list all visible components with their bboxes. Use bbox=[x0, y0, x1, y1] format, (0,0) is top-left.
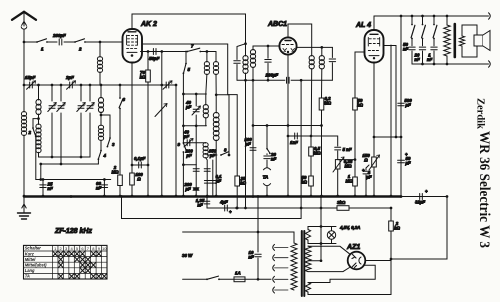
speaker bbox=[474, 31, 490, 51]
capacitor 60nF bbox=[96, 180, 108, 198]
coil antenna coupling bbox=[21, 112, 26, 198]
wire AK2 cathode bbox=[131, 63, 134, 198]
terminal bottom right bbox=[489, 61, 491, 67]
coil IF big bbox=[213, 112, 219, 197]
coil L2a bbox=[36, 85, 41, 120]
switch 8 bbox=[207, 148, 230, 157]
svg-text:pF: pF bbox=[185, 104, 192, 109]
capacitor 25nF bbox=[40, 180, 53, 198]
cap 32uF bbox=[415, 189, 428, 205]
svg-text:36 W: 36 W bbox=[182, 253, 193, 258]
resistor 50k b bbox=[301, 175, 313, 197]
svg-text:Zerdik: Zerdik bbox=[475, 98, 486, 129]
svg-text:32µF: 32µF bbox=[415, 200, 425, 205]
TA jack bbox=[263, 160, 271, 197]
label AL4 bbox=[355, 22, 371, 29]
bracket IFT2 bbox=[215, 93, 229, 155]
rail y179 bbox=[36, 164, 111, 181]
ground bus bbox=[24, 195, 401, 198]
svg-text:MΩ: MΩ bbox=[324, 100, 332, 105]
svg-text:1: 1 bbox=[41, 47, 44, 52]
coil antenna top bbox=[97, 57, 102, 85]
switch table bbox=[24, 245, 108, 279]
rail IF bot bbox=[182, 152, 196, 197]
rail y157 bbox=[39, 156, 91, 159]
switch 2 bbox=[74, 39, 86, 52]
wire fuse to tap bbox=[245, 278, 271, 280]
trimmer C90 bbox=[86, 85, 94, 157]
svg-text:+: + bbox=[425, 189, 428, 194]
cap IF3 bbox=[329, 47, 335, 80]
svg-text:MΩ: MΩ bbox=[345, 178, 353, 183]
svg-text:3kΩ: 3kΩ bbox=[337, 200, 346, 205]
branch 1nF bbox=[427, 16, 437, 64]
resistor 100ohm bbox=[130, 172, 144, 185]
svg-text:nF: nF bbox=[427, 57, 433, 62]
wire bbox=[47, 41, 57, 43]
wire antenna down bbox=[23, 42, 26, 112]
cap 250pF bbox=[204, 149, 217, 198]
node t52 bbox=[51, 84, 54, 87]
coil IF3 a bbox=[309, 56, 314, 137]
cap 50uF bbox=[398, 137, 411, 198]
svg-text:+: + bbox=[362, 168, 365, 173]
wire mains cap drop bbox=[257, 195, 260, 252]
svg-text:200pF: 200pF bbox=[52, 33, 66, 38]
wire grid return bbox=[160, 52, 163, 198]
wire ABC1 grid left bbox=[253, 45, 279, 48]
coil L3a bbox=[98, 85, 103, 116]
transformer fil winding bbox=[305, 283, 310, 293]
wire AK2 g-cap bbox=[141, 50, 217, 53]
line B bbox=[120, 195, 301, 218]
wire hv top to anode bbox=[308, 246, 350, 254]
fuse 1A bbox=[234, 271, 245, 282]
mains switch bbox=[206, 276, 220, 280]
capacitor IFT1 bbox=[234, 44, 246, 80]
node t101 bbox=[100, 84, 103, 87]
output transformer secondary bbox=[459, 25, 477, 57]
cap small 207 bbox=[204, 181, 210, 184]
svg-text:kΩ: kΩ bbox=[357, 102, 363, 107]
brand Zerdik bbox=[475, 98, 486, 129]
svg-text:nF: nF bbox=[96, 185, 102, 190]
coil L3b bbox=[98, 112, 103, 140]
svg-text:Schalter: Schalter bbox=[25, 246, 42, 251]
wire AL4 topcap bbox=[373, 16, 375, 30]
resistor 1M bbox=[345, 160, 357, 198]
cap det bbox=[265, 46, 271, 80]
capacitor 200pF bbox=[52, 33, 66, 45]
wire AL4 screen bbox=[384, 45, 398, 198]
svg-text:Ω: Ω bbox=[363, 157, 368, 162]
coil IFT1 bbox=[243, 44, 248, 80]
svg-text:pF: pF bbox=[404, 102, 411, 107]
svg-text:AK 2: AK 2 bbox=[140, 21, 157, 28]
svg-text:2pF: 2pF bbox=[65, 75, 74, 80]
svg-text:µF: µF bbox=[365, 174, 372, 179]
cap 20nF bbox=[264, 126, 277, 162]
wire plate feed bbox=[400, 16, 402, 137]
wire avc drop bbox=[300, 80, 303, 218]
lamp 4,5V bbox=[327, 225, 360, 244]
svg-text:TA: TA bbox=[25, 274, 30, 279]
wire AL4 grid bbox=[355, 52, 365, 98]
pentode AL4 bbox=[365, 30, 384, 63]
trimmer C167 bbox=[163, 81, 172, 89]
poti 150ohm bbox=[362, 137, 379, 197]
cap 100pF bbox=[244, 126, 256, 198]
svg-text:Mittel(abst): Mittel(abst) bbox=[25, 263, 47, 268]
svg-text:µF: µF bbox=[404, 160, 411, 165]
poti 0,25M bbox=[333, 157, 353, 197]
wire AK2 topcap bbox=[132, 14, 247, 45]
svg-text:3: 3 bbox=[112, 142, 115, 147]
label 36W bbox=[182, 253, 193, 258]
svg-text:4,5V, 0,3A: 4,5V, 0,3A bbox=[339, 225, 360, 230]
wire rectifier out bbox=[390, 197, 447, 261]
output transformer core bbox=[453, 24, 456, 57]
wire 1nF row bbox=[288, 135, 338, 146]
label AK2 bbox=[140, 21, 157, 28]
wire bbox=[219, 278, 234, 280]
resistor 25k bbox=[235, 176, 247, 209]
svg-text:AL 4: AL 4 bbox=[355, 22, 371, 29]
transformer heater winding bbox=[305, 225, 336, 245]
wire bottom right bus bbox=[412, 63, 489, 66]
wire top bus bbox=[374, 15, 489, 18]
coil IF a bbox=[203, 94, 208, 126]
switch 2b bbox=[28, 119, 39, 180]
svg-text:pF: pF bbox=[185, 153, 192, 158]
svg-text:nF: nF bbox=[403, 46, 409, 51]
svg-text:kΩ: kΩ bbox=[301, 179, 307, 184]
wire bbox=[64, 41, 75, 43]
wire pot top bbox=[338, 158, 357, 161]
capacitor 50pF bbox=[149, 49, 160, 62]
svg-text:MΩ: MΩ bbox=[313, 150, 321, 155]
label AZ1 bbox=[346, 244, 360, 251]
cap 500pF bbox=[398, 98, 412, 107]
pentode AK2 bbox=[123, 29, 143, 63]
branch 20nF bbox=[414, 16, 426, 64]
transformer core bbox=[302, 231, 305, 296]
wire fil bottom bbox=[308, 259, 391, 295]
rail IF top bbox=[182, 93, 206, 96]
wire fil top bbox=[308, 265, 375, 282]
svg-text:9: 9 bbox=[178, 142, 181, 147]
resistor 0,5M bbox=[309, 136, 321, 176]
wire ABC1 top bbox=[288, 24, 312, 56]
svg-text:+: + bbox=[405, 152, 408, 157]
coil det bbox=[250, 46, 255, 80]
res 3k bbox=[337, 200, 349, 210]
resistor 2M bbox=[111, 84, 125, 198]
wire tuning bus bbox=[24, 84, 176, 86]
svg-text:200µF: 200µF bbox=[265, 73, 279, 78]
svg-text:Ω: Ω bbox=[136, 176, 141, 181]
wire switch2 to AK2 grid bbox=[85, 41, 124, 44]
wire ABC1 right pin bbox=[297, 46, 333, 49]
cap 5nF bbox=[335, 147, 352, 160]
rectifier AZ1 bbox=[348, 252, 366, 270]
coil IF b bbox=[203, 143, 208, 158]
svg-text:1nF: 1nF bbox=[290, 140, 298, 145]
label ZF bbox=[54, 228, 92, 235]
wire drop 176 bbox=[175, 84, 178, 198]
svg-text:nF: nF bbox=[248, 254, 254, 259]
svg-text:nF: nF bbox=[197, 202, 203, 207]
cap 0,1uF b bbox=[210, 160, 222, 196]
switch 5 bbox=[183, 52, 191, 75]
svg-text:nF: nF bbox=[47, 186, 53, 191]
svg-text:MΩ: MΩ bbox=[344, 163, 352, 168]
wire AL4 cathode bbox=[373, 63, 376, 139]
terminal top right bbox=[489, 13, 491, 19]
resistor 2k bbox=[389, 208, 401, 259]
svg-text:MΩ: MΩ bbox=[111, 169, 119, 174]
node t38 bbox=[37, 84, 40, 87]
triode ABC1 bbox=[279, 37, 296, 54]
rail IFT1 bottom bbox=[237, 79, 332, 82]
svg-text:+: + bbox=[229, 210, 232, 215]
transformer primary bbox=[291, 243, 297, 290]
svg-text:kΩ: kΩ bbox=[240, 180, 246, 185]
label ABC1 bbox=[267, 21, 287, 28]
wire antenna to switch 1 bbox=[23, 41, 37, 44]
trimmer 40pF b bbox=[183, 130, 206, 147]
svg-text:2: 2 bbox=[78, 47, 82, 52]
wire mains top bbox=[183, 231, 294, 243]
svg-text:kΩ: kΩ bbox=[140, 74, 146, 79]
transformer hv winding bbox=[305, 246, 311, 272]
tuning arrow bbox=[155, 104, 167, 117]
node t90 bbox=[89, 84, 92, 87]
wire b+ row bbox=[401, 195, 448, 198]
output transformer primary bbox=[444, 16, 450, 64]
svg-text:pF: pF bbox=[184, 186, 191, 191]
switch 7 bbox=[186, 44, 201, 53]
cap 1nF bbox=[290, 133, 298, 145]
wire mains bottom bbox=[183, 278, 207, 280]
trimmer 15pF bbox=[25, 75, 36, 89]
cap 200uF bbox=[265, 73, 291, 85]
svg-text:4: 4 bbox=[103, 153, 107, 158]
trimmer C52 bbox=[48, 85, 56, 157]
svg-text:TA: TA bbox=[263, 175, 269, 180]
cap 200pF a bbox=[184, 149, 199, 197]
svg-text:6: 6 bbox=[123, 97, 126, 102]
svg-text:kΩ: kΩ bbox=[394, 225, 400, 230]
svg-text:WR 36 Selectric W 3: WR 36 Selectric W 3 bbox=[476, 131, 492, 248]
trimmer C61 bbox=[57, 85, 65, 164]
resistor 0,2M bbox=[319, 96, 331, 197]
node 0,1uF right bbox=[147, 164, 150, 167]
svg-text:pF: pF bbox=[244, 141, 251, 146]
switch 3 bbox=[101, 115, 115, 148]
svg-text:ABC1: ABC1 bbox=[267, 21, 287, 28]
svg-text:50pF: 50pF bbox=[149, 56, 160, 61]
svg-text:4µF: 4µF bbox=[219, 200, 228, 205]
svg-text:Lang: Lang bbox=[25, 268, 35, 273]
coil L2b bbox=[36, 114, 41, 157]
node A 237 bbox=[235, 207, 238, 210]
wire ift1 avc drop bbox=[244, 80, 247, 209]
wire hv bottom to anode bbox=[308, 268, 350, 272]
wire screen row bbox=[374, 136, 402, 139]
cap 200pF b bbox=[183, 182, 199, 197]
svg-text:Mittel: Mittel bbox=[25, 257, 37, 262]
wire AK2 anode row bbox=[142, 44, 237, 176]
wire det down bbox=[252, 80, 254, 125]
svg-text:5 nF: 5 nF bbox=[343, 147, 352, 152]
brand title bbox=[476, 131, 492, 248]
node t61 bbox=[60, 84, 63, 87]
line A bbox=[207, 207, 392, 210]
transformer taps bbox=[273, 244, 288, 293]
trimmer 40pF a bbox=[185, 94, 201, 126]
trimmer C81 bbox=[77, 85, 85, 157]
wire avc row bbox=[252, 124, 321, 127]
ground symbol bbox=[18, 197, 31, 220]
coil IF3 b bbox=[319, 47, 324, 98]
svg-text:15pF: 15pF bbox=[25, 75, 36, 80]
node bus 71 bbox=[70, 195, 73, 198]
svg-text:pF: pF bbox=[209, 153, 216, 158]
svg-text:2: 2 bbox=[28, 130, 32, 135]
cap 10nF mains bbox=[248, 250, 261, 281]
svg-text:1A: 1A bbox=[235, 271, 241, 276]
svg-text:nF: nF bbox=[271, 156, 277, 161]
wire osc coil drop bbox=[99, 42, 101, 57]
trimmer 2pF bbox=[65, 75, 76, 89]
switch 4b bbox=[98, 140, 107, 164]
wire ABC1 cathode bbox=[287, 55, 290, 198]
wire osc sw drop bbox=[182, 73, 184, 142]
cap 4uF line bbox=[219, 200, 232, 215]
antenna bbox=[12, 12, 36, 42]
capacitor 0,1uF coupling bbox=[132, 156, 148, 168]
svg-text:AZ1: AZ1 bbox=[346, 244, 360, 251]
resistor 50k a bbox=[353, 98, 364, 160]
node t81 bbox=[80, 84, 83, 87]
svg-text:10: 10 bbox=[102, 246, 107, 251]
svg-text:nF: nF bbox=[414, 57, 420, 62]
svg-text:5: 5 bbox=[188, 67, 191, 72]
coil osc A bbox=[204, 50, 209, 94]
cap 4uF cathode bbox=[362, 165, 372, 197]
rail y164 bbox=[39, 163, 98, 166]
svg-text:ZF-128 kHz: ZF-128 kHz bbox=[54, 228, 92, 235]
wire hv center tap bbox=[320, 195, 323, 261]
coil osc B bbox=[213, 52, 218, 114]
svg-text:pF: pF bbox=[183, 134, 190, 139]
switch 1 bbox=[36, 39, 48, 52]
branch 50nF bbox=[403, 16, 415, 64]
svg-text:Kurz: Kurz bbox=[25, 251, 35, 256]
svg-text:8: 8 bbox=[224, 148, 227, 153]
switch 9 bbox=[178, 142, 187, 153]
rail IF mid bbox=[182, 124, 206, 127]
cap 1,35nF bbox=[196, 195, 210, 208]
wire 196 column bbox=[195, 126, 197, 165]
wire hv center bbox=[308, 259, 322, 262]
resistor 70k bbox=[140, 52, 151, 198]
svg-text:0,1µF: 0,1µF bbox=[134, 156, 146, 161]
wire AZ1 output bbox=[365, 260, 391, 262]
